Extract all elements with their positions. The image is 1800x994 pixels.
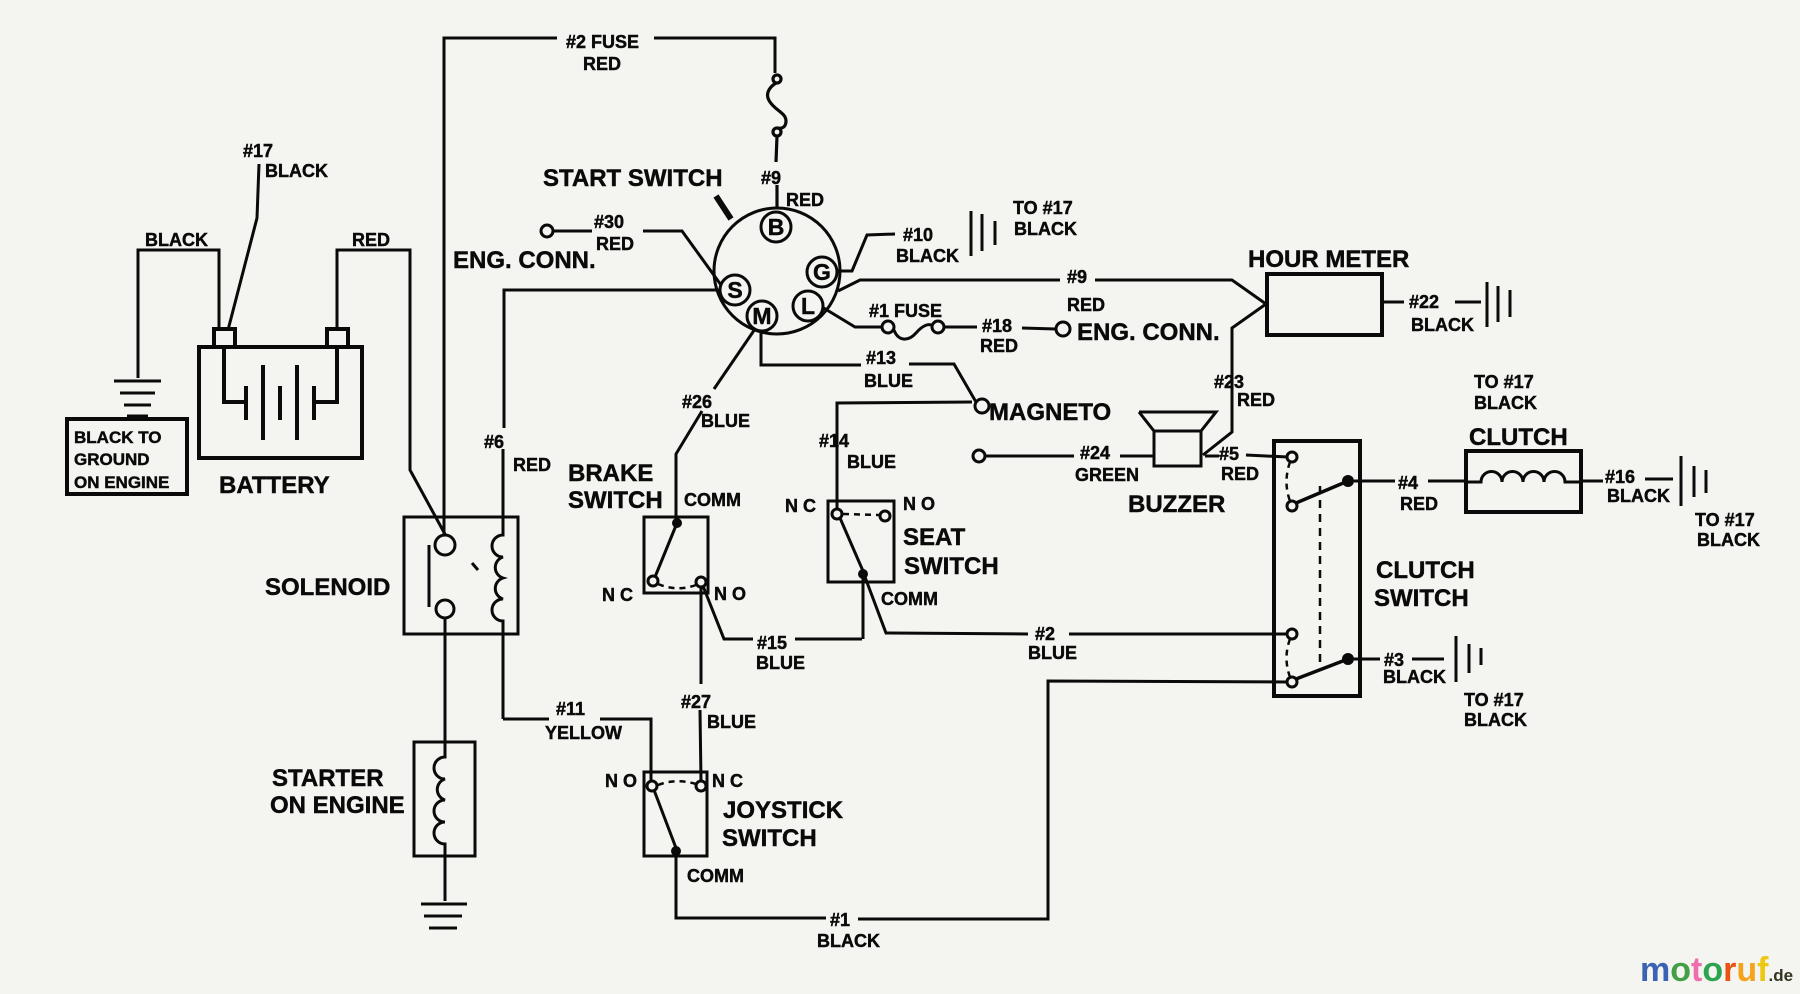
label #6 RED: [484, 432, 551, 475]
wire #22 black: [1382, 301, 1481, 304]
svg-text:BLUE: BLUE: [847, 452, 896, 472]
svg-text:#30: #30: [594, 212, 624, 232]
svg-text:#11: #11: [556, 699, 585, 719]
note box BLACK TO GROUND ON ENGINE: [67, 419, 187, 494]
svg-text:BLACK: BLACK: [1014, 219, 1077, 239]
svg-text:BLUE: BLUE: [756, 653, 805, 673]
svg-text:#9: #9: [761, 168, 781, 188]
svg-text:#27: #27: [681, 692, 711, 712]
pin G: [807, 257, 837, 287]
label #1 BLACK: [817, 910, 880, 951]
wire #3 black: [1354, 658, 1444, 661]
brake dashed arc: [658, 584, 696, 588]
wire #16 black: [1581, 479, 1673, 481]
svg-text:N C: N C: [785, 496, 816, 516]
wire #4 red: [1354, 480, 1466, 483]
wire #30 eng conn: [541, 225, 721, 285]
label BRAKE SWITCH: [568, 460, 663, 514]
svg-text:RED: RED: [352, 230, 390, 250]
svg-text:CLUTCH: CLUTCH: [1376, 557, 1475, 584]
svg-text:TO #17: TO #17: [1464, 690, 1524, 710]
svg-text:YELLOW: YELLOW: [545, 723, 622, 743]
clutch dashed arc T1-T2: [1287, 462, 1291, 501]
svg-text:#2 FUSE: #2 FUSE: [566, 32, 639, 52]
clutch T4 terminal: [1287, 677, 1297, 687]
svg-text:BLACK: BLACK: [817, 931, 880, 951]
wire #26 blue: [676, 329, 755, 519]
svg-text:BRAKE: BRAKE: [568, 460, 653, 487]
label #13 BLUE: [864, 348, 913, 391]
svg-text:SWITCH: SWITCH: [568, 487, 663, 514]
svg-text:#23: #23: [1214, 372, 1244, 392]
svg-text:G: G: [813, 259, 831, 285]
clutch dashed arc T3-T4: [1287, 639, 1291, 677]
ground (to #17, top): [971, 211, 995, 256]
battery negative wire BLACK: [138, 250, 219, 378]
ground (starter): [421, 904, 467, 928]
svg-text:JOYSTICK: JOYSTICK: [723, 797, 844, 824]
label TO #17 BLACK (top): [1013, 198, 1077, 239]
svg-text:RED: RED: [1237, 390, 1275, 410]
svg-text:COMM: COMM: [684, 490, 741, 510]
svg-text:#14: #14: [819, 431, 849, 451]
svg-text:GROUND: GROUND: [74, 450, 150, 469]
svg-text:ENG. CONN.: ENG. CONN.: [453, 247, 596, 274]
clutch dashed vertical: [1319, 486, 1322, 662]
svg-text:GREEN: GREEN: [1075, 465, 1139, 485]
svg-text:BLACK: BLACK: [1474, 393, 1537, 413]
label CLUTCH SWITCH: [1374, 557, 1475, 612]
svg-text:SWITCH: SWITCH: [904, 553, 999, 580]
label #3 BLACK: [1383, 650, 1446, 687]
wire #23 red: [1203, 304, 1266, 455]
battery positive wire RED: [337, 250, 446, 536]
svg-text:BLACK: BLACK: [1383, 667, 1446, 687]
svg-text:S: S: [727, 277, 742, 303]
svg-text:RED: RED: [583, 54, 621, 74]
label #9 RED (hour meter): [1067, 267, 1105, 315]
wire #13 blue: [761, 331, 976, 402]
seat lever: [840, 518, 863, 571]
svg-text:SWITCH: SWITCH: [1374, 585, 1469, 612]
svg-text:MAGNETO: MAGNETO: [989, 399, 1111, 426]
pin L: [793, 291, 823, 321]
starter coil: [434, 742, 445, 856]
svg-text:ON ENGINE: ON ENGINE: [74, 473, 169, 492]
svg-text:L: L: [801, 293, 815, 319]
svg-text:N C: N C: [602, 585, 633, 605]
svg-text:#18: #18: [982, 316, 1012, 336]
svg-text:SEAT: SEAT: [903, 524, 966, 551]
magneto node: [975, 399, 989, 413]
svg-text:#24: #24: [1080, 443, 1110, 463]
svg-text:RED: RED: [596, 234, 634, 254]
label TO #17 BLACK (#3): [1464, 690, 1527, 730]
pin B: [761, 212, 791, 242]
svg-text:#5: #5: [1219, 444, 1239, 464]
clutch coil: [1466, 472, 1581, 483]
label #22 BLACK: [1409, 292, 1474, 335]
wire #14 blue: [837, 402, 972, 509]
pointer to start switch: [716, 196, 731, 219]
svg-text:BLACK: BLACK: [896, 246, 959, 266]
svg-text:HOUR METER: HOUR METER: [1248, 246, 1409, 273]
svg-text:COMM: COMM: [881, 589, 938, 609]
ground (to #17, #16): [1681, 456, 1706, 506]
svg-text:#6: #6: [484, 432, 504, 452]
label JOYSTICK SWITCH: [722, 797, 844, 852]
seat NO terminal: [880, 511, 890, 521]
svg-text:ENG. CONN.: ENG. CONN.: [1077, 319, 1220, 346]
label #16 BLACK: [1605, 467, 1670, 506]
starter box: [414, 742, 475, 856]
clutch coil box: [1466, 451, 1581, 512]
solenoid box: [404, 517, 518, 634]
seat dashed line: [843, 514, 879, 515]
joystick switch box: [644, 772, 707, 856]
wire #17 black: [228, 164, 259, 330]
svg-text:#15: #15: [757, 633, 787, 653]
ground (to #17, #22): [1487, 282, 1510, 327]
svg-text:BLACK TO: BLACK TO: [74, 428, 162, 447]
solenoid coil: [492, 517, 503, 634]
label #15 BLUE: [756, 633, 805, 673]
svg-text:#2: #2: [1035, 624, 1055, 644]
svg-text:BATTERY: BATTERY: [219, 472, 330, 499]
svg-text:RED: RED: [513, 455, 551, 475]
svg-text:STARTER: STARTER: [272, 765, 384, 792]
label SEAT SWITCH: [903, 524, 999, 580]
label TO #17 BLACK (#22): [1474, 372, 1537, 413]
label TO #17 BLACK (#16): [1695, 510, 1760, 550]
clutch T1 terminal: [1287, 452, 1297, 462]
svg-text:#22: #22: [1409, 292, 1439, 312]
wire #10 black: [837, 234, 895, 271]
wire #11 yellow: [503, 634, 651, 781]
svg-text:#26: #26: [682, 392, 712, 412]
svg-text:M: M: [752, 303, 771, 329]
label #23 RED: [1214, 372, 1275, 410]
svg-text:CLUTCH: CLUTCH: [1469, 424, 1568, 451]
joystick lever: [654, 790, 676, 848]
svg-text:TO #17: TO #17: [1013, 198, 1073, 218]
joystick NO terminal: [647, 781, 657, 791]
svg-text:RED: RED: [1400, 494, 1438, 514]
label #5 RED: [1219, 444, 1259, 484]
brake switch box: [644, 517, 708, 593]
start switch circle: [714, 208, 840, 334]
svg-text:BLUE: BLUE: [707, 712, 756, 732]
pin M: [747, 301, 777, 331]
battery B1: [199, 329, 362, 458]
svg-text:#1: #1: [830, 910, 850, 930]
wire #5 red: [1205, 455, 1288, 457]
clutch dot lower: [1342, 653, 1354, 665]
clutch dot upper: [1342, 475, 1354, 487]
svg-text:BUZZER: BUZZER: [1128, 491, 1225, 518]
label STARTER ON ENGINE: [270, 765, 405, 819]
svg-text:BLUE: BLUE: [701, 411, 750, 431]
seat comm dot: [858, 569, 868, 579]
brake comm dot: [672, 518, 682, 528]
label #2 FUSE RED: [566, 32, 639, 74]
wire #9 red to hour meter: [838, 280, 1266, 304]
label #9 RED (top): [761, 168, 824, 210]
motoruf.de logo: [1640, 951, 1793, 989]
seat switch box: [828, 501, 894, 582]
svg-text:SOLENOID: SOLENOID: [265, 574, 390, 601]
joystick comm dot: [671, 846, 681, 856]
ground (battery): [114, 381, 161, 416]
joystick NC terminal: [696, 781, 706, 791]
svg-text:RED: RED: [786, 190, 824, 210]
wire #2 blue: [865, 577, 1288, 634]
svg-text:RED: RED: [1067, 295, 1105, 315]
wire starter to ground: [444, 856, 447, 901]
label #26 BLUE: [682, 392, 750, 431]
brake lever: [655, 523, 677, 577]
svg-text:COMM: COMM: [687, 866, 744, 886]
label #11 YELLOW: [545, 699, 622, 743]
svg-text:START SWITCH: START SWITCH: [543, 165, 723, 192]
label #17 BLACK: [243, 141, 328, 181]
svg-text:#16: #16: [1605, 467, 1635, 487]
svg-text:ON ENGINE: ON ENGINE: [270, 792, 405, 819]
label #30 RED: [594, 212, 634, 254]
clutch lever lower: [1296, 659, 1348, 679]
buzzer speaker: [1139, 412, 1216, 466]
label #2 BLUE: [1028, 624, 1077, 663]
wire #24 green: [973, 450, 1154, 462]
fuse F2 symbol: [768, 75, 786, 208]
wire #2 fuse top left segment: [444, 38, 775, 535]
svg-text:#10: #10: [903, 225, 933, 245]
clutch switch box: [1274, 441, 1360, 696]
svg-text:B: B: [768, 214, 785, 240]
svg-text:BLACK: BLACK: [1607, 486, 1670, 506]
svg-text:SWITCH: SWITCH: [722, 825, 817, 852]
svg-text:N O: N O: [714, 584, 746, 604]
svg-text:RED: RED: [1221, 464, 1259, 484]
svg-text:BLUE: BLUE: [1028, 643, 1077, 663]
clutch T3 terminal: [1287, 629, 1297, 639]
pin S: [720, 275, 750, 305]
wire #1 fuse: [822, 307, 1070, 339]
svg-text:TO #17: TO #17: [1695, 510, 1755, 530]
label #14 BLUE: [819, 431, 896, 472]
label #4 RED: [1398, 473, 1438, 514]
label #24 GREEN: [1075, 443, 1139, 485]
clutch lever upper: [1296, 481, 1348, 503]
label #27 BLUE: [681, 692, 756, 732]
wire #6 red: [503, 290, 721, 517]
label #10 BLACK: [896, 225, 959, 266]
svg-text:#9: #9: [1067, 267, 1087, 287]
svg-text:N O: N O: [903, 494, 935, 514]
label #18 RED: [980, 316, 1018, 356]
wire #1 black: [676, 681, 1288, 919]
wire #15 blue: [703, 578, 863, 639]
ground (to #17, #3): [1456, 636, 1481, 682]
svg-text:TO #17: TO #17: [1474, 372, 1534, 392]
svg-text:BLACK: BLACK: [1411, 315, 1474, 335]
svg-text:BLACK: BLACK: [145, 230, 208, 250]
svg-text:N O: N O: [605, 771, 637, 791]
svg-text:BLACK: BLACK: [1464, 710, 1527, 730]
svg-text:BLACK: BLACK: [1697, 530, 1760, 550]
clutch T2 terminal: [1287, 501, 1297, 511]
seat NC terminal: [832, 509, 842, 519]
brake NO terminal: [696, 577, 706, 587]
svg-text:#4: #4: [1398, 473, 1418, 493]
svg-text:RED: RED: [980, 336, 1018, 356]
svg-text:#13: #13: [866, 348, 896, 368]
wire solenoid to starter: [444, 618, 447, 743]
svg-text:#1 FUSE: #1 FUSE: [869, 301, 942, 321]
joystick dashed arc: [658, 781, 696, 785]
svg-text:N C: N C: [712, 771, 743, 791]
hour meter box: [1267, 274, 1382, 335]
svg-text:BLACK: BLACK: [265, 161, 328, 181]
brake NC terminal: [648, 576, 658, 586]
svg-text:BLUE: BLUE: [864, 371, 913, 391]
wire #27 blue: [700, 587, 701, 781]
svg-text:#17: #17: [243, 141, 273, 161]
